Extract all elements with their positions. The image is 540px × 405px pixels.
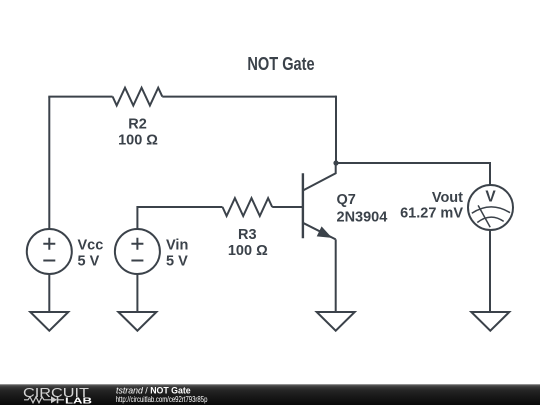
svg-text:Vin: Vin: [166, 238, 188, 254]
voltage source Vcc: [27, 229, 104, 274]
svg-text:R3: R3: [238, 227, 257, 243]
logo LAB: [65, 397, 92, 405]
title NOT Gate: [247, 53, 314, 74]
svg-text:5 V: 5 V: [78, 254, 100, 270]
voltage source Vin: [115, 229, 188, 274]
svg-text:Vout: Vout: [432, 190, 463, 206]
ground emitter: [317, 312, 355, 331]
wire node to voltmeter horizontal: [336, 162, 490, 164]
footer bar: [0, 384, 540, 405]
svg-text:Q7: Q7: [337, 192, 356, 208]
svg-text:61.27 mV: 61.27 mV: [400, 206, 463, 222]
svg-text:LAB: LAB: [65, 397, 92, 405]
wire voltmeter bottom vertical: [489, 230, 491, 312]
voltmeter Vout: [400, 185, 513, 230]
transistor Q7: [303, 163, 387, 239]
logo resistor squiggle: [24, 397, 51, 403]
footer text credit: [116, 386, 191, 396]
wire base lead: [272, 206, 303, 208]
svg-text:NOT Gate: NOT Gate: [247, 53, 314, 74]
svg-text:R2: R2: [128, 117, 147, 133]
wire emitter vertical: [335, 239, 337, 312]
svg-text:2N3904: 2N3904: [337, 210, 388, 226]
svg-text:V: V: [485, 189, 496, 206]
wire Vcc top vertical: [48, 97, 50, 229]
ground voltmeter: [471, 312, 509, 331]
svg-text:5 V: 5 V: [166, 254, 188, 270]
wire right vertical to node: [335, 96, 337, 163]
resistor R3: [223, 198, 273, 259]
wire Vin top vertical and horizontal: [137, 207, 222, 229]
node collector junction: [333, 160, 338, 165]
resistor R2: [113, 88, 163, 149]
wire top right horizontal: [162, 96, 336, 98]
ground Vcc: [30, 312, 68, 331]
wire voltmeter top vertical: [489, 162, 491, 185]
logo diode: [51, 396, 64, 403]
wire Vin bottom vertical: [136, 274, 138, 312]
svg-text:http://circuitlab.com/ce92rt79: http://circuitlab.com/ce92rt793r85p: [116, 394, 208, 404]
svg-text:Vcc: Vcc: [78, 238, 104, 254]
svg-text:100 Ω: 100 Ω: [228, 243, 268, 259]
ground Vin: [118, 312, 156, 331]
wire top left horizontal: [48, 96, 112, 98]
wire Vcc bottom vertical: [48, 274, 50, 312]
logo CircuitLab CIRCUIT: [23, 385, 89, 400]
footer text url: [116, 394, 208, 404]
svg-text:100 Ω: 100 Ω: [118, 132, 158, 148]
